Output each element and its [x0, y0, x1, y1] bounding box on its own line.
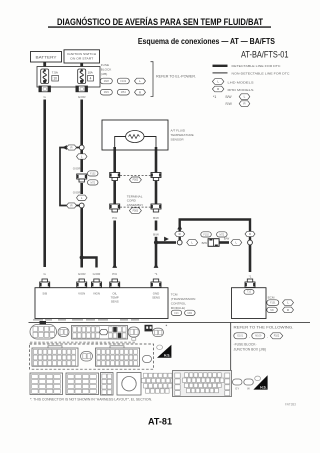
- TCM box: [35, 288, 168, 319]
- wire G/OR to VIGN junction: [80, 208, 83, 258]
- split circle top: [79, 145, 84, 150]
- connector ref F503: [129, 208, 141, 214]
- fuse block connector refs M28 F102 L: [100, 78, 112, 84]
- connector ref F502: [129, 177, 141, 183]
- wires to second pair: [113, 181, 116, 204]
- arrow on branch: [164, 237, 169, 242]
- svg-text:VIGN: VIGN: [78, 291, 85, 295]
- svg-text:F503: F503: [133, 210, 139, 213]
- svg-text:(J/B): (J/B): [101, 72, 108, 76]
- connector view small oval between: [81, 352, 93, 362]
- svg-text:(TRANSMISSION: (TRANSMISSION: [171, 297, 196, 301]
- svg-text:A/T FLUID: A/T FLUID: [171, 128, 186, 132]
- H.S. icon row3: [253, 375, 267, 389]
- wire segment: [219, 241, 229, 244]
- svg-text:F102: F102: [90, 172, 96, 175]
- connector view narrow 8-cell: [101, 373, 114, 396]
- svg-text:,: ,: [249, 335, 250, 339]
- svg-text:LHD MODELS: LHD MODELS: [228, 80, 254, 84]
- svg-text:AT-81: AT-81: [148, 416, 173, 427]
- connector view E101 (small oval): [128, 327, 140, 337]
- junction B/W split: [154, 240, 158, 244]
- svg-text:IGNITION SWITCH: IGNITION SWITCH: [67, 52, 96, 56]
- connector ref oval GY: [233, 379, 243, 385]
- svg-text:G/OR: G/OR: [78, 272, 87, 276]
- connector ref oval: [143, 356, 152, 363]
- connector view round coupler: [117, 373, 141, 396]
- wire ignition switch to fuse block: [80, 63, 83, 69]
- sensor thermistor element: [126, 131, 144, 143]
- option marker L bottom: [77, 195, 88, 200]
- svg-text:B/W: B/W: [153, 232, 159, 236]
- connector refs F102 M72: [201, 232, 212, 237]
- dashed outline box: [30, 344, 154, 369]
- wire P/U down to TCM: [113, 221, 116, 268]
- svg-text:H.S.: H.S.: [260, 385, 266, 389]
- svg-text:G/OR: G/OR: [73, 191, 82, 195]
- svg-text:*: *: [166, 324, 168, 329]
- arrow on *1 wire: [154, 263, 159, 268]
- svg-text:S/B: S/B: [42, 291, 47, 295]
- svg-text:SENSOR: SENSOR: [171, 137, 185, 141]
- connector view M54 (small oval): [58, 328, 69, 337]
- pairing dashed line: [120, 175, 151, 177]
- svg-text:FAT383: FAT383: [285, 402, 296, 406]
- svg-text:SENS: SENS: [152, 295, 160, 299]
- arrow on P/U wire: [112, 263, 117, 268]
- wire battery to fuse block: [43, 62, 46, 69]
- A/T fluid temperature sensor box: [102, 120, 168, 150]
- split circle bottom: [79, 203, 84, 208]
- RHD riser left: [180, 220, 250, 241]
- terminal cord connector pair 2 left: [110, 204, 120, 212]
- wire *1 down to ECM: [249, 245, 252, 272]
- svg-text:P/U: P/U: [112, 216, 117, 220]
- legend: LHD models marker: [212, 79, 224, 85]
- svg-text:TEMPERATURE: TEMPERATURE: [171, 133, 194, 137]
- svg-text:CONTROL: CONTROL: [171, 301, 186, 305]
- svg-text:*: THIS CONNECTOR IS NOT SHOWN: *: THIS CONNECTOR IS NOT SHOWN IN “HARNE…: [30, 398, 152, 402]
- junction VIGN split: [80, 255, 84, 259]
- wire G from fuse 10 down to TCM: [43, 100, 46, 268]
- svg-text:B/W: B/W: [153, 216, 159, 220]
- fuse block output connector 1A: [39, 86, 51, 92]
- svg-text:10: 10: [53, 77, 57, 81]
- svg-text:R: R: [70, 204, 72, 208]
- svg-text:B/W: B/W: [202, 241, 208, 245]
- svg-text:MODULE): MODULE): [171, 306, 185, 310]
- wire B/W to junction: [155, 221, 158, 231]
- svg-text:F102: F102: [203, 233, 209, 236]
- in-line connector on B/W branch: [208, 239, 219, 247]
- svg-text:VIGN: VIGN: [93, 291, 100, 295]
- connector view 16-cell grid B: [66, 373, 99, 395]
- wire G/OR from fuse 4 down to split circle: [80, 100, 83, 146]
- svg-text:REFER TO THE FOLLOWING.: REFER TO THE FOLLOWING.: [234, 325, 294, 329]
- option marker L right: [231, 240, 242, 246]
- wire segment G/OR: [80, 150, 83, 172]
- svg-text:R/W: R/W: [226, 102, 232, 106]
- connector view staggered grid: [144, 373, 148, 377]
- title underline rule: [48, 26, 271, 27]
- connector view labels row1: [33, 319, 43, 321]
- terminal cord connector pair 1 left: [110, 173, 120, 181]
- svg-text:R: R: [70, 146, 72, 150]
- ECM box: [232, 288, 267, 319]
- svg-text:F101: F101: [270, 302, 276, 305]
- legend: detectable line for DTC: [213, 65, 228, 67]
- svg-text:*1: *1: [155, 272, 158, 276]
- svg-text:P/U: P/U: [112, 272, 117, 276]
- svg-text:M109: M109: [255, 335, 262, 338]
- connector view F23 (large grid): [48, 346, 62, 349]
- svg-text:M60: M60: [187, 312, 192, 315]
- svg-text:7.5A: 7.5A: [52, 71, 58, 75]
- svg-text:GY: GY: [235, 386, 239, 390]
- svg-text:F102: F102: [274, 335, 280, 338]
- svg-text:F102: F102: [120, 79, 126, 83]
- fuse block output connector 5W: [76, 86, 88, 92]
- svg-text:JUNCTION BOX (J/B): JUNCTION BOX (J/B): [234, 348, 266, 352]
- svg-text:,: ,: [267, 335, 268, 339]
- svg-text:R: R: [249, 232, 251, 236]
- svg-text:SENS: SENS: [111, 299, 119, 303]
- option loop wire (RHD bypass): [60, 148, 79, 206]
- connector view M60 (large grid): [110, 346, 124, 349]
- ECM internal connector ref: [244, 290, 254, 295]
- legend: non-detectable line for DTC: [213, 72, 228, 73]
- branch circle left: [177, 240, 182, 245]
- connector view key tab: [40, 321, 47, 325]
- svg-text:DIAGNÓSTICO DE AVERÍAS PARA SE: DIAGNÓSTICO DE AVERÍAS PARA SEN TEMP FLU…: [57, 16, 263, 27]
- svg-text:BLOCK: BLOCK: [101, 68, 112, 72]
- svg-text:R: R: [179, 232, 181, 236]
- svg-text:10A: 10A: [88, 71, 93, 75]
- svg-text:NON-DETECTABLE LINE FOR DTC: NON-DETECTABLE LINE FOR DTC: [232, 72, 291, 76]
- connector view 16-cell grid A: [30, 373, 63, 395]
- connector view small black: [145, 325, 153, 332]
- wire B/W segment: [155, 237, 158, 268]
- svg-text:ECM: ECM: [268, 295, 275, 299]
- option marker R right riser: [245, 231, 255, 236]
- separator line: [29, 321, 311, 324]
- battery: [31, 52, 62, 63]
- in-line connector F102/M72: [77, 174, 87, 182]
- svg-text:E101: E101: [237, 335, 243, 338]
- svg-text:AT-BA/FTS-01: AT-BA/FTS-01: [241, 50, 289, 60]
- svg-text:H.S.: H.S.: [164, 354, 170, 358]
- sensor internal wires: [115, 137, 156, 149]
- fuse block (J/B): [37, 67, 100, 88]
- connector view small oval right: [153, 328, 164, 336]
- branch circle right: [248, 240, 253, 245]
- pin number row: [30, 342, 32, 344]
- svg-text:G/OR: G/OR: [78, 95, 87, 99]
- ignition switch on or start: [64, 50, 100, 63]
- svg-text:*1: *1: [249, 275, 252, 279]
- svg-text:RHD MODELS: RHD MODELS: [228, 88, 254, 92]
- svg-text:*1: *1: [213, 95, 216, 99]
- arrow on loop: [62, 145, 67, 150]
- junction box terminal layout: [173, 371, 232, 397]
- svg-text:ON OR START: ON OR START: [70, 57, 93, 61]
- legend: RHD models marker: [212, 86, 224, 92]
- svg-text:F502: F502: [133, 179, 139, 182]
- option marker L: [77, 154, 88, 159]
- connector ref oval W: [244, 379, 254, 385]
- fuse number 10: [52, 75, 59, 81]
- svg-text:W: W: [247, 386, 250, 390]
- B/W branch wire to right: [156, 241, 176, 244]
- fuse number 4: [88, 75, 94, 81]
- svg-text:BATTERY: BATTERY: [36, 55, 58, 59]
- loop option marker R top: [67, 145, 77, 150]
- ECM connector refs: [267, 300, 279, 306]
- svg-text:-FUSE BLOCK-: -FUSE BLOCK-: [234, 342, 257, 346]
- svg-text:M29: M29: [104, 90, 110, 94]
- svg-text:B/W: B/W: [224, 236, 230, 240]
- loop option marker R bottom: [67, 203, 77, 208]
- svg-text:G/OR: G/OR: [93, 272, 102, 276]
- ECM connector: [245, 279, 255, 287]
- svg-text:FUSE: FUSE: [101, 63, 109, 67]
- svg-text:R: R: [287, 308, 289, 312]
- arrow on riser: [177, 225, 182, 230]
- svg-text:M54: M54: [121, 90, 127, 94]
- sensor output wires: [113, 147, 116, 173]
- connector view F102 (2-row strip): [72, 326, 128, 340]
- option marker R left riser: [175, 231, 185, 236]
- svg-text:G/OR: G/OR: [73, 166, 82, 170]
- svg-text:ASSEMBLY: ASSEMBLY: [127, 203, 143, 207]
- TCM connectors into box: [40, 279, 50, 287]
- svg-text:TCM: TCM: [171, 293, 178, 297]
- divider line: [229, 322, 232, 397]
- bracket refer to EL-POWER: [151, 62, 154, 97]
- svg-text:4: 4: [90, 77, 92, 81]
- fuse block connector refs M29 M54 R: [100, 89, 112, 95]
- terminal cord connector pair 1 right: [151, 173, 161, 181]
- svg-text:B/W: B/W: [226, 95, 232, 99]
- svg-text:DETECTABLE LINE FOR DTC: DETECTABLE LINE FOR DTC: [232, 64, 282, 68]
- svg-text:Esquema de conexiones — AT — B: Esquema de conexiones — AT — BA/FTS: [138, 36, 275, 46]
- terminal cord connector pair 2 right: [151, 204, 161, 212]
- svg-text:REFER TO EL-POWER.: REFER TO EL-POWER.: [156, 75, 196, 79]
- H.S. icon row2: [157, 345, 171, 358]
- TCM connector refs F23 M60: [171, 310, 182, 315]
- svg-text:M72: M72: [90, 181, 95, 184]
- svg-text:F23: F23: [174, 312, 179, 315]
- connector view M28 (oval 8-cell): [30, 325, 57, 340]
- option marker L on straight path: [187, 240, 198, 246]
- wire G/OR to TCM VIGN pin: [80, 258, 83, 268]
- svg-text:M28: M28: [104, 79, 110, 83]
- fuse 4 (10A): [78, 69, 86, 84]
- fuse 10 (7.5A): [41, 69, 49, 84]
- wire segment G/OR below connector: [80, 183, 83, 194]
- refer connector refs: [234, 333, 247, 339]
